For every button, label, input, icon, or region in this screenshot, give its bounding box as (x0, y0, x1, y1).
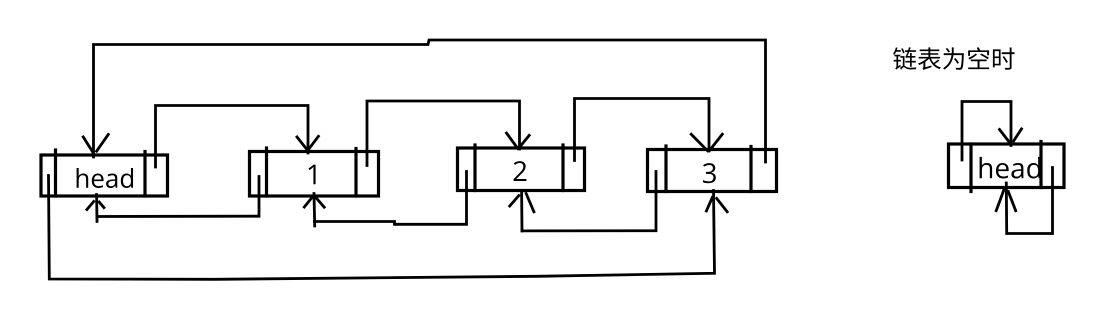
arrowhead into head top (83, 134, 108, 154)
arrowhead into head bottom (87, 202, 104, 210)
wire next node2 to node3 (bridge) (575, 99, 710, 161)
wire next head to node1 (bridge) (156, 106, 309, 168)
wire next node1 to node2 (bridge) (367, 101, 520, 166)
node 1 box (250, 148, 379, 196)
arrowhead into node2 top (507, 133, 530, 148)
wire prev node1 to head (97, 177, 259, 217)
wire next node3 to head (top wrap) (94, 40, 766, 162)
arrow stem into node1 bottom (313, 194, 317, 227)
arrowhead into empty head bottom (996, 190, 1016, 211)
label 1 (308, 165, 315, 185)
arrowhead into node3 top (691, 134, 722, 151)
label head (empty list) (980, 157, 1041, 179)
label 3 (703, 163, 716, 183)
node head (empty list) box (949, 142, 1065, 192)
arrowhead into node2 bottom (510, 193, 534, 211)
node 2 box (458, 145, 585, 191)
caption: empty list (893, 47, 1014, 70)
arrowhead into empty head top (1000, 129, 1022, 142)
wire next head to itself (empty list top loop) (962, 102, 1011, 161)
arrow stem into node2 bottom (520, 191, 523, 231)
arrowhead into node1 top (297, 136, 318, 150)
node 3 box (648, 146, 777, 192)
wire prev node3 to node2 (522, 172, 656, 231)
wire prev head to node3 (bottom wrap) (49, 176, 715, 280)
wire prev node2 to node1 (315, 172, 467, 225)
label 2 (514, 161, 527, 181)
node head box (41, 150, 168, 196)
arrow stem into head bottom (95, 195, 98, 222)
arrowhead into node3 bottom (706, 198, 727, 212)
wire prev head to itself (empty list bottom loop) (1006, 168, 1052, 234)
arrowhead into node1 bottom (304, 198, 324, 207)
label head (77, 168, 133, 188)
